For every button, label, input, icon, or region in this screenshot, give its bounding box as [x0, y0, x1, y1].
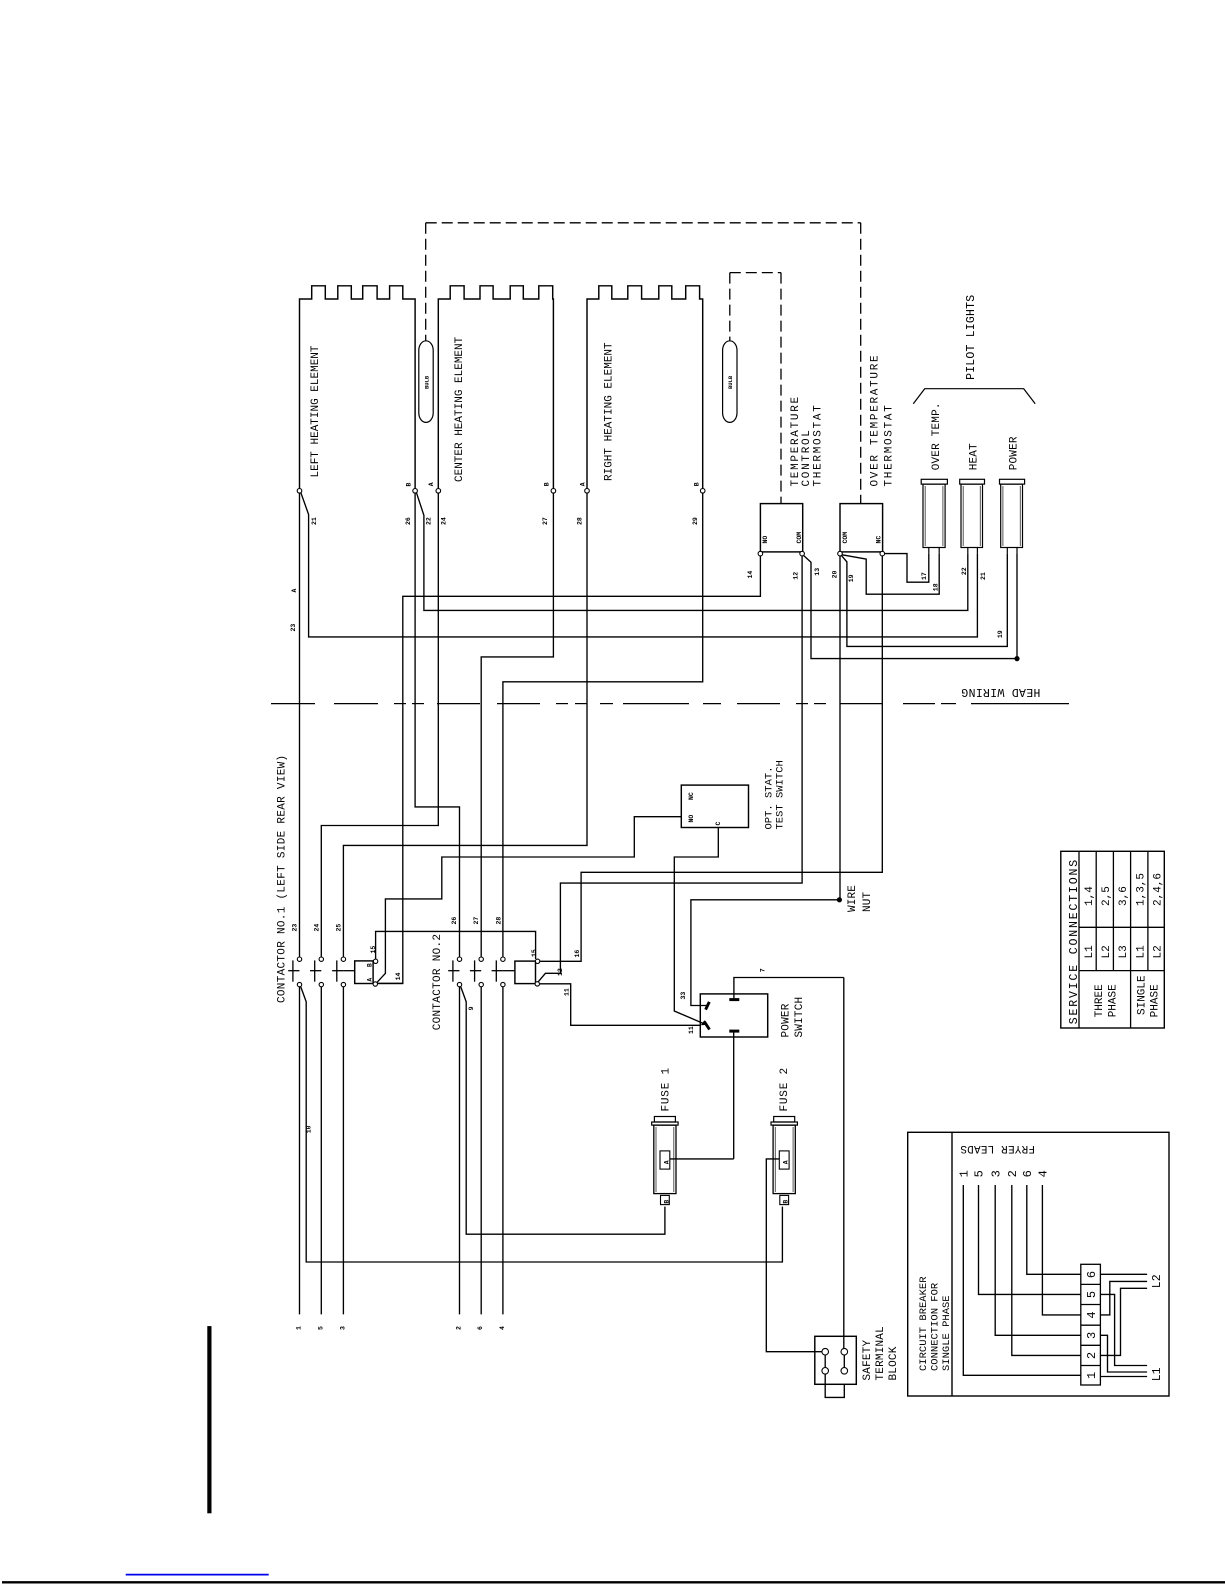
- svg-text:21: 21: [980, 572, 987, 580]
- svg-text:LEFT HEATING ELEMENT: LEFT HEATING ELEMENT: [310, 345, 322, 477]
- svg-text:PILOT LIGHTS: PILOT LIGHTS: [965, 295, 978, 380]
- svg-text:L1: L1: [1151, 1367, 1164, 1381]
- svg-text:CONTACTOR NO.2: CONTACTOR NO.2: [432, 934, 444, 1031]
- svg-text:28: 28: [495, 917, 502, 925]
- wire 3 (contactor no.1 pole 3 down to lead 3): [342, 987, 344, 1315]
- wire 24 (center element A to contactor no.1 pole 2): [321, 493, 438, 957]
- svg-text:19: 19: [997, 630, 1004, 638]
- svg-text:THERMOSTAT: THERMOSTAT: [813, 403, 825, 486]
- svg-text:14: 14: [747, 571, 754, 579]
- svg-text:COM: COM: [842, 532, 849, 544]
- svg-text:CONNECTION FOR: CONNECTION FOR: [930, 1282, 942, 1371]
- wire 7 (power switch top to safety terminal block): [843, 978, 845, 1349]
- svg-text:14: 14: [395, 972, 402, 980]
- test switch C wire down to power switch: [674, 828, 718, 1024]
- fuse FUSE 1: [654, 1117, 675, 1123]
- service connections table outline: [1061, 851, 1165, 1028]
- svg-text:2: 2: [1085, 1352, 1099, 1359]
- wire 21 (left element to HEAT pilot right leg): [301, 493, 978, 637]
- wire 11 (contactor no.2 coil to power switch): [539, 984, 700, 1026]
- wire 16 (over temperature thermostat NC down to contactor no.2 coil 15): [538, 556, 882, 961]
- svg-text:5: 5: [973, 1170, 987, 1177]
- svg-text:5: 5: [317, 1326, 324, 1330]
- svg-text:TEST SWITCH: TEST SWITCH: [774, 760, 786, 829]
- heating element: CENTER HEATING ELEMENT: [438, 286, 553, 489]
- svg-text:24: 24: [440, 517, 447, 525]
- svg-text:THREE: THREE: [1094, 984, 1106, 1017]
- svg-text:11: 11: [564, 988, 571, 996]
- svg-text:FUSE 1: FUSE 1: [660, 1067, 672, 1111]
- svg-text:20: 20: [832, 570, 839, 578]
- svg-text:4: 4: [1037, 1170, 1051, 1177]
- svg-text:L2: L2: [1101, 945, 1113, 958]
- wire 2 (contactor no.2 pole 1 down to lead 2): [459, 987, 461, 1315]
- svg-text:7: 7: [760, 968, 767, 972]
- wire 9 (contactor no.2 pole 1 to fuse 1 B): [461, 987, 665, 1235]
- svg-text:CONTACTOR NO.1 (LEFT SIDE REAR: CONTACTOR NO.1 (LEFT SIDE REAR VIEW): [277, 755, 289, 1003]
- svg-text:SERVICE CONNECTIONS: SERVICE CONNECTIONS: [1068, 858, 1081, 1024]
- svg-text:NO: NO: [688, 815, 695, 823]
- svg-text:OVER TEMP.: OVER TEMP.: [931, 402, 943, 470]
- breaker pole stack (terminals 6..1): [1081, 1264, 1101, 1385]
- svg-text:29: 29: [692, 517, 699, 525]
- wire 6 (contactor no.2 pole 2 down to lead 6): [480, 987, 482, 1315]
- svg-text:15: 15: [531, 949, 538, 957]
- temperature control thermostat box: [760, 504, 802, 552]
- svg-text:BLOCK: BLOCK: [888, 1346, 900, 1380]
- svg-text:12: 12: [792, 572, 799, 580]
- svg-text:17: 17: [921, 572, 928, 580]
- svg-text:3: 3: [1085, 1332, 1099, 1339]
- svg-text:POWER: POWER: [1009, 436, 1021, 470]
- svg-text:BULB: BULB: [423, 375, 430, 389]
- contactor no.1 poles (3 contacts with terminals): [297, 957, 301, 961]
- wire 15 (bus linking coil terminals of contactor no.1 and no.2): [376, 931, 536, 959]
- svg-text:L3: L3: [1118, 945, 1130, 958]
- svg-text:OVER TEMPERATURE: OVER TEMPERATURE: [870, 354, 882, 487]
- thick side bar: [207, 1326, 211, 1513]
- svg-text:HEAT: HEAT: [968, 443, 980, 470]
- svg-text:3: 3: [989, 1170, 1003, 1177]
- svg-text:5: 5: [1085, 1291, 1099, 1298]
- svg-text:4: 4: [1085, 1311, 1099, 1318]
- power switch lower blade terminal 11: [704, 1021, 709, 1029]
- svg-text:COM: COM: [796, 532, 803, 544]
- svg-text:PHASE: PHASE: [1150, 984, 1162, 1017]
- bottom page rule: [2, 1581, 1225, 1583]
- svg-text:NUT: NUT: [862, 891, 874, 912]
- power switch bottom terminal: [729, 1030, 739, 1033]
- wire nut junction dot: [837, 897, 842, 902]
- wire 5 (contactor no.1 pole 2 down to lead 5): [320, 987, 322, 1315]
- wire 26 (left element B to contactor no.2 pole 1): [415, 493, 459, 957]
- wire 19 (over temperature thermostat COM to POWER pilot left leg): [841, 553, 1007, 646]
- wire 13 (temperature control thermostat COM to POWER pilot junction): [804, 555, 1017, 658]
- wire 29 (right element B to contactor no.2 pole 3): [503, 493, 703, 957]
- power switch top terminal (wire 7): [729, 998, 739, 1001]
- svg-text:B: B: [663, 1200, 670, 1204]
- pilot light: HEAT: [960, 479, 985, 484]
- heating element: LEFT HEATING ELEMENT: [300, 286, 416, 489]
- heating element: RIGHT HEATING ELEMENT: [587, 286, 703, 489]
- wire 28 / 25 (right element A to contactor no.1 pole 3): [343, 493, 587, 957]
- svg-text:27: 27: [473, 917, 480, 925]
- svg-text:22: 22: [426, 517, 433, 525]
- safety terminal block internal links: [824, 1355, 826, 1368]
- svg-text:27: 27: [542, 517, 549, 525]
- contactor no.1 coil box: [355, 961, 373, 984]
- svg-text:9: 9: [468, 1006, 475, 1010]
- svg-text:26: 26: [451, 917, 458, 925]
- svg-text:FRYER LEADS: FRYER LEADS: [960, 1142, 1035, 1154]
- svg-text:SINGLE: SINGLE: [1136, 975, 1148, 1015]
- svg-text:2,5: 2,5: [1101, 886, 1113, 906]
- svg-text:L1: L1: [1084, 945, 1096, 959]
- safety terminal block box: [815, 1336, 857, 1384]
- svg-text:BULB: BULB: [727, 375, 734, 389]
- svg-text:3: 3: [339, 1326, 346, 1330]
- svg-text:WIRE: WIRE: [847, 885, 859, 912]
- breaker wiring to L2 (terminals 6,4,2): [1100, 1273, 1147, 1275]
- svg-text:TERMINAL: TERMINAL: [875, 1326, 887, 1380]
- svg-text:6: 6: [1085, 1271, 1099, 1278]
- over temperature thermostat box: [840, 504, 883, 552]
- bulb B1 (temperature sensing bulb, left): [419, 341, 433, 423]
- svg-text:L2: L2: [1152, 945, 1164, 958]
- opt. stat. test switch box: [681, 785, 748, 827]
- svg-text:C: C: [715, 822, 722, 826]
- terminal circles of heating elements: [297, 489, 302, 494]
- blue hyperlink underline: [126, 1574, 269, 1576]
- svg-text:6: 6: [477, 1326, 484, 1330]
- svg-text:B: B: [406, 483, 413, 487]
- svg-text:1,3,5: 1,3,5: [1135, 873, 1147, 906]
- svg-text:2,4,6: 2,4,6: [1152, 873, 1164, 906]
- svg-text:SAFETY: SAFETY: [862, 1339, 874, 1380]
- wire from fuse 2 A to safety terminal block: [766, 1159, 821, 1352]
- svg-text:SINGLE PHASE: SINGLE PHASE: [941, 1295, 953, 1371]
- contactor no.2 poles (3 contacts with terminals): [457, 957, 461, 961]
- svg-text:CIRCUIT BREAKER: CIRCUIT BREAKER: [918, 1276, 930, 1371]
- svg-text:B: B: [544, 482, 551, 486]
- svg-text:26: 26: [405, 517, 412, 525]
- wire 23 (left element terminal straight down to contactor no.1 pole 1): [299, 493, 301, 957]
- capillary dashed line to bulb 2 and temperature control thermostat: [730, 272, 781, 274]
- svg-text:2: 2: [1006, 1170, 1020, 1177]
- wire 1 (contactor no.1 pole 1 down to lead 1): [299, 987, 301, 1315]
- svg-text:TEMPERATURE: TEMPERATURE: [790, 395, 802, 486]
- svg-text:A: A: [367, 978, 374, 982]
- svg-text:24: 24: [313, 924, 320, 932]
- fryer lead wires to breaker poles: [963, 1185, 1081, 1375]
- pilot light: OVER TEMP.: [921, 479, 947, 484]
- svg-text:2: 2: [456, 1326, 463, 1330]
- fuse FUSE 2: [774, 1117, 795, 1123]
- svg-text:B: B: [367, 963, 374, 967]
- wire 33 from wire nut to power switch: [691, 900, 840, 1006]
- svg-text:CENTER HEATING ELEMENT: CENTER HEATING ELEMENT: [454, 336, 466, 482]
- svg-text:21: 21: [311, 517, 318, 525]
- wire 14 (temperature control thermostat NO to contactor no.1 coil A): [379, 556, 761, 984]
- junction dot at POWER pilot right leg: [1016, 553, 1018, 658]
- wire 27 (center element B to contactor no.2 pole 2): [481, 493, 553, 957]
- svg-text:B: B: [783, 1200, 790, 1204]
- svg-text:28: 28: [576, 517, 583, 525]
- svg-text:CONTROL: CONTROL: [801, 428, 813, 486]
- svg-text:L1: L1: [1135, 945, 1147, 959]
- svg-text:SWITCH: SWITCH: [794, 997, 806, 1038]
- wire 17 (over temperature thermostat NC to OVER TEMP pilot left leg): [885, 553, 929, 582]
- wire 4 (contactor no.2 pole 3 down to lead 4): [502, 987, 504, 1315]
- svg-text:22: 22: [961, 567, 968, 575]
- svg-text:18: 18: [932, 583, 939, 591]
- svg-text:FUSE 2: FUSE 2: [779, 1067, 791, 1111]
- wire 22 (left element B to HEAT pilot left leg): [417, 493, 968, 611]
- svg-text:A: A: [428, 482, 435, 486]
- wire 12 (temperature control thermostat COM to contactor no.2 coil): [538, 556, 802, 982]
- breaker wiring to L1 (terminals 5,3,1): [1100, 1294, 1147, 1365]
- wire 20 (over temperature thermostat COM down to wire nut): [839, 556, 841, 900]
- svg-text:10: 10: [306, 1125, 313, 1133]
- svg-text:L2: L2: [1151, 1274, 1164, 1288]
- svg-text:1: 1: [1085, 1372, 1099, 1379]
- svg-text:4: 4: [499, 1326, 506, 1330]
- wire 10 (contactor no.1 pole 1 to fuse 2 B): [301, 987, 783, 1262]
- wire 18 (over temperature thermostat COM to OVER TEMP pilot right leg): [842, 553, 939, 594]
- power switch box: [700, 994, 767, 1037]
- svg-text:RIGHT HEATING ELEMENT: RIGHT HEATING ELEMENT: [604, 342, 616, 481]
- svg-text:THERMOSTAT: THERMOSTAT: [884, 403, 896, 486]
- svg-text:25: 25: [336, 924, 343, 932]
- circuit breaker connection box outline: [908, 1132, 1169, 1396]
- safety terminal block bottom jumper: [825, 1374, 844, 1397]
- svg-text:B: B: [693, 482, 700, 486]
- svg-text:PHASE: PHASE: [1108, 984, 1120, 1017]
- svg-text:13: 13: [814, 568, 821, 576]
- contactor no.2 coil box: [515, 961, 536, 984]
- svg-text:POWER: POWER: [780, 1003, 792, 1037]
- capillary dashed bus (thermostat sensing lines): [426, 222, 861, 224]
- svg-text:NO: NO: [762, 536, 769, 544]
- svg-text:1: 1: [296, 1326, 303, 1330]
- pilot light: POWER: [1000, 479, 1025, 484]
- svg-text:23: 23: [292, 924, 299, 932]
- service connections table grid: [1095, 851, 1097, 970]
- svg-text:1,4: 1,4: [1084, 886, 1096, 906]
- HEAD WIRING boundary dashed line: [271, 703, 315, 705]
- svg-text:16: 16: [574, 950, 581, 958]
- svg-text:3,6: 3,6: [1118, 886, 1130, 906]
- svg-text:NC: NC: [688, 792, 695, 800]
- svg-text:1: 1: [958, 1170, 972, 1177]
- svg-text:NC: NC: [876, 536, 883, 544]
- svg-text:A: A: [579, 482, 586, 486]
- svg-text:A: A: [783, 1160, 790, 1164]
- power switch upper blade terminal 33: [706, 1002, 710, 1010]
- svg-text:33: 33: [680, 992, 687, 1000]
- opt stat test switch NO wire to contactor no.1 coil A: [377, 817, 681, 983]
- svg-text:A: A: [291, 589, 298, 593]
- bulb B2 (temperature sensing bulb, right): [723, 341, 737, 423]
- svg-text:6: 6: [1021, 1170, 1035, 1177]
- svg-text:23: 23: [290, 624, 297, 632]
- wire from contactor no.1 coil A to wire 14 junction: [378, 982, 403, 984]
- svg-text:12: 12: [557, 968, 564, 976]
- svg-text:A: A: [663, 1160, 670, 1164]
- svg-text:HEAD WIRING: HEAD WIRING: [961, 685, 1040, 698]
- wire from power switch bottom to fuse 1 A: [670, 1158, 734, 1160]
- svg-text:11: 11: [688, 1026, 695, 1034]
- svg-text:19: 19: [848, 574, 855, 582]
